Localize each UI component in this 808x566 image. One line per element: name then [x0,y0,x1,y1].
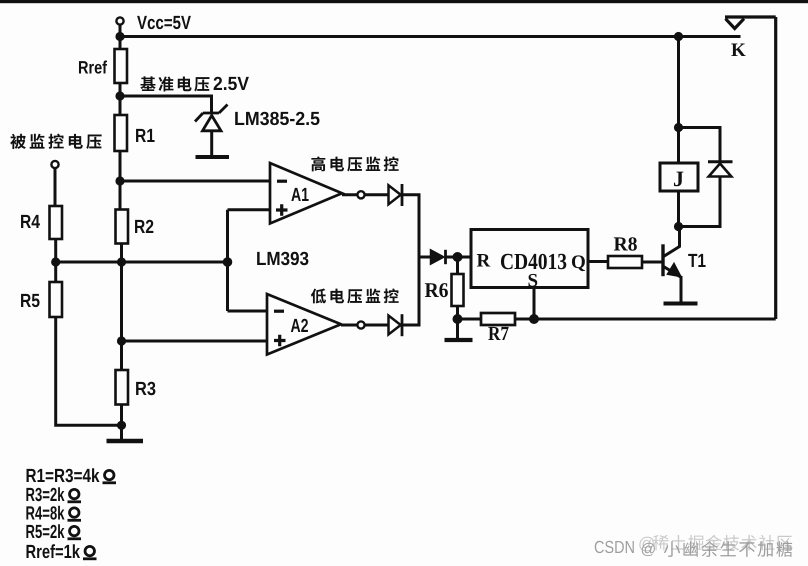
node R6 bottom junction [453,314,463,324]
label R4=8k [26,506,64,520]
watermark CSDN [595,541,634,553]
node ground junction [117,421,126,430]
wire terminal to R4 [54,168,57,206]
diode D2 [389,316,401,335]
resistor R4 [50,206,63,239]
relay coil J [660,163,698,191]
label Rref=1k [26,544,80,558]
top border line [0,0,808,3]
label K [731,44,745,56]
wire switch top to right rail [725,15,776,18]
resistor R3 [116,370,129,405]
node comparator input tap [223,257,233,267]
wire R8 to base [642,261,662,264]
wire R1 to R2 [119,151,122,210]
terminal A1 output [357,191,364,198]
node R1-R2 junction [115,176,124,185]
resistor Rref [115,49,128,83]
label R6 [425,283,448,297]
diode D4 freewheeling bar [708,160,733,163]
op-amp A1 [270,163,342,224]
wire R2 to R3 [120,244,123,371]
resistor R7 [481,313,515,325]
label R4 [21,215,40,228]
wire A1 output to diode [342,193,388,196]
wire S node to right rail [534,318,776,321]
wire Q output [588,260,608,263]
wire right rail [774,17,777,319]
node S pin junction [529,314,539,324]
wire node to A2 non-inverting input [122,340,268,343]
zener diode LM385-2.5 triangle [203,116,222,131]
label LM385-2.5 [235,112,319,125]
label R1=R3=4k [27,468,100,482]
op-amp A2 [267,294,341,355]
watermark juejin [639,537,653,552]
label R8 [614,237,637,250]
pin label Q [572,255,585,271]
wire S pin [533,288,536,320]
resistor R1 [115,115,128,151]
wire R7 to S node [515,318,534,321]
wire node to A1 inverting input [120,180,270,183]
node R input junction [453,252,463,262]
node Vcc rail junction [115,32,124,41]
transistor T1 base bar [661,244,664,276]
wire node to R6 [456,257,459,274]
label R5=2k [26,524,64,538]
label monitored voltage [10,134,101,149]
node R4-R5 junction [51,257,60,266]
label Vcc=5V [137,16,191,29]
label Rref [79,60,107,73]
wire R6 to ground node [456,306,459,339]
node top rail junction [674,32,683,41]
resistor R5 [50,282,63,317]
node R3 top junction [117,336,126,345]
resistor R6 [452,274,464,306]
wire D2 to bus [402,324,421,327]
label high voltage monitoring [311,156,398,171]
wire Vcc to Rref [119,25,122,49]
pin label R [477,254,491,266]
ground main [107,439,144,443]
wire tap vertical [226,210,229,311]
node reference voltage junction [115,91,124,100]
diode D4 freewheeling triangle [709,164,732,177]
wire tap to A1 non-inverting input [228,208,271,211]
resistor R8 [608,256,642,268]
wire D3 to R pin [446,256,472,259]
node mid divider junction [117,257,126,266]
diode D3 [431,250,445,264]
wire node to R7 [458,318,482,321]
diode D1 [389,185,401,204]
label low voltage monitoring [311,289,399,304]
zener diode LM385-2.5 cathode bar [195,105,228,122]
wire R4 to R5 [54,239,57,282]
wire diode-or bus [418,195,421,325]
terminal Vcc [116,17,123,24]
transistor T1 collector [664,227,680,257]
wire Rref to R1 [119,83,122,115]
resistor R2 [116,210,129,244]
node collector junction [674,222,683,231]
label T1 [688,254,705,267]
ground below R6 [445,338,473,342]
label R7 [488,327,508,340]
wire Vcc top rail [120,35,741,38]
wire junction to D4 top [679,128,721,161]
node relay top junction [674,123,683,132]
wire zener to ground [210,131,213,156]
transistor T1 emitter [664,267,682,302]
label R3 [136,382,155,395]
switch K contact triangle [726,19,745,29]
label reference voltage 2.5V [140,76,209,91]
label CD4013 [501,254,566,270]
label R1 [136,129,155,142]
label R5 [21,294,40,307]
label J [674,172,683,187]
label R2 [135,220,153,233]
ground below LM385 [196,155,230,159]
pin label S [529,274,538,287]
IC CD4013 [471,230,588,288]
label R3=2k [26,487,64,501]
wire node to D4 bottom [679,175,721,227]
wire D1 to bus [402,193,421,196]
wire tap to A2 inverting input [228,310,268,313]
wire R5 to ground corner [56,317,122,425]
wire A2 output to diode [341,324,388,327]
wire J to collector node [677,191,680,227]
wire top rail to relay J [677,37,680,164]
ground below T1 [664,302,698,306]
terminal monitored voltage input [51,161,58,168]
wire node to zener [120,96,212,112]
label LM393 [257,252,308,265]
wire divider node to comparator inputs [56,261,228,264]
terminal A2 output [357,321,364,328]
wire R3 to ground [120,405,123,440]
wire bus to D3 [419,256,431,259]
